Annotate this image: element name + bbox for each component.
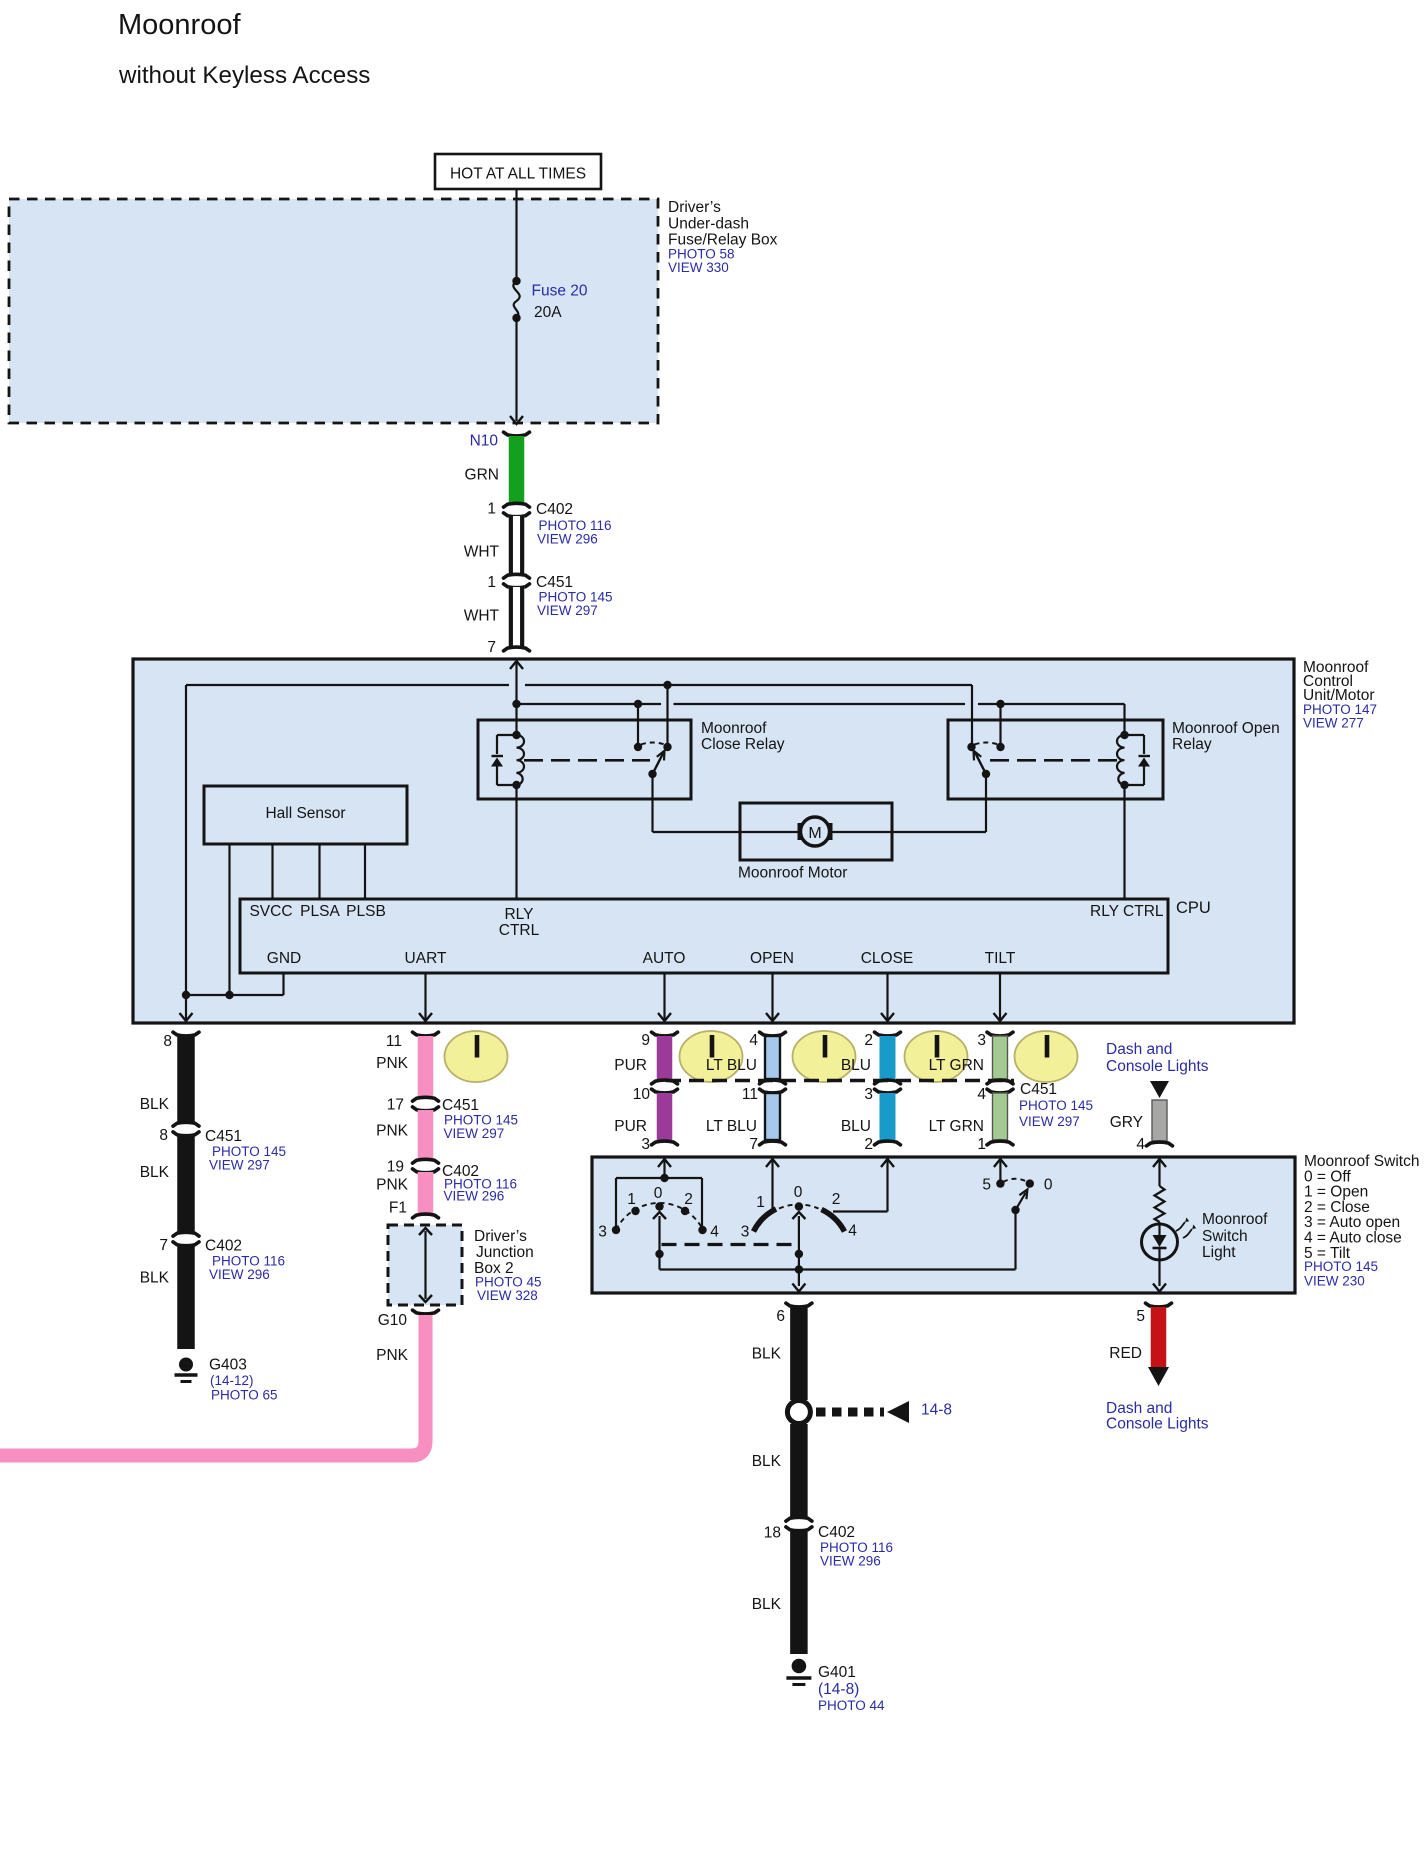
junction box pass-through arrow <box>424 1231 426 1299</box>
svg-text:VIEW 296: VIEW 296 <box>209 1267 270 1282</box>
svg-text:VIEW 277: VIEW 277 <box>1303 716 1364 731</box>
svg-text:PHOTO 65: PHOTO 65 <box>211 1388 278 1403</box>
svg-text:C451: C451 <box>442 1097 479 1114</box>
fuse box label <box>668 199 778 275</box>
Hall Sensor box <box>204 786 407 844</box>
cap GRY bottom pin 4 <box>1147 1142 1173 1146</box>
svg-text:Dash and: Dash and <box>1106 1041 1172 1058</box>
svg-text:WHT: WHT <box>464 544 500 561</box>
svg-text:VIEW 330: VIEW 330 <box>668 260 729 275</box>
svg-text:Close Relay: Close Relay <box>701 736 785 753</box>
svg-text:HOT AT ALL TIMES: HOT AT ALL TIMES <box>450 166 586 183</box>
svg-text:11: 11 <box>742 1086 758 1103</box>
CPU pin labels top <box>249 903 1163 939</box>
Moonroof Switch box <box>592 1157 1295 1293</box>
svg-text:Driver’s: Driver’s <box>474 1228 527 1245</box>
connector C451 pin 11 <box>760 1080 786 1084</box>
svg-text:VIEW 296: VIEW 296 <box>820 1554 881 1569</box>
close relay armature <box>653 752 665 775</box>
wire GRN N10 <box>509 436 525 503</box>
sw2 contact strip 2-4 <box>822 1210 845 1232</box>
sw2 position labels <box>741 1184 858 1241</box>
option circle 4 <box>905 1031 968 1082</box>
connector C402 pin 19 <box>413 1159 439 1163</box>
connector C402 pin 7 <box>173 1232 199 1236</box>
connector C451 row label <box>1019 1081 1093 1129</box>
cap LTGRN top <box>987 1032 1013 1036</box>
svg-text:VIEW 297: VIEW 297 <box>537 603 598 618</box>
svg-text:0: 0 <box>654 1185 663 1202</box>
svg-text:Console Lights: Console Lights <box>1106 1058 1209 1075</box>
svg-text:LT GRN: LT GRN <box>929 1118 984 1135</box>
svg-text:4: 4 <box>977 1086 986 1103</box>
label Dash and Console Lights (top) <box>1106 1041 1209 1075</box>
svg-text:3: 3 <box>641 1136 650 1153</box>
sw1 feed arrow <box>658 1159 671 1167</box>
connector C451 pin 8 <box>173 1122 199 1126</box>
svg-text:4: 4 <box>710 1224 719 1241</box>
svg-text:1: 1 <box>627 1191 636 1208</box>
svg-text:CTRL: CTRL <box>499 922 540 939</box>
cap BLU top <box>875 1032 901 1036</box>
svg-text:GRY: GRY <box>1110 1114 1143 1131</box>
ground G401 <box>792 1659 807 1674</box>
svg-text:C451: C451 <box>1020 1081 1057 1098</box>
svg-text:OPEN: OPEN <box>750 950 794 967</box>
lamp feed arrow <box>1153 1159 1166 1167</box>
node common-exit <box>795 1265 803 1273</box>
LED emission arrows <box>1176 1222 1185 1231</box>
svg-text:Dash and: Dash and <box>1106 1400 1172 1417</box>
wire PNK seg3 <box>418 1172 434 1213</box>
svg-text:C402: C402 <box>536 501 573 518</box>
svg-text:1: 1 <box>977 1136 986 1153</box>
node line2-open relay <box>996 700 1004 708</box>
connector C402 pnk label <box>442 1163 517 1204</box>
common return line <box>660 1268 1016 1270</box>
connector C402 pin 1 (top) <box>504 503 530 507</box>
cap PNK top <box>413 1032 439 1036</box>
sw2 CLOSE feed arrow <box>881 1159 894 1167</box>
bus line 1 (ground feed) <box>186 684 509 686</box>
svg-text:C451: C451 <box>536 574 573 591</box>
svg-text:9: 9 <box>641 1032 650 1049</box>
connector C402 bottom label <box>818 1524 893 1569</box>
wire BLK left seg3 <box>177 1245 195 1349</box>
svg-text:VIEW 297: VIEW 297 <box>209 1158 270 1173</box>
svg-text:Moonroof: Moonroof <box>701 720 767 737</box>
wire BLK bottom seg1 <box>790 1307 808 1400</box>
svg-text:VIEW 297: VIEW 297 <box>444 1126 505 1141</box>
switch mechanical link (dashed) <box>662 1243 796 1246</box>
node power-line2 <box>512 700 520 708</box>
svg-text:7: 7 <box>487 639 496 656</box>
svg-text:LT BLU: LT BLU <box>706 1057 757 1074</box>
svg-text:SVCC: SVCC <box>249 903 292 920</box>
connector C451 left label <box>205 1128 286 1173</box>
svg-text:4: 4 <box>749 1032 758 1049</box>
svg-text:2: 2 <box>864 1136 873 1153</box>
TILT exit wire <box>999 973 1001 1021</box>
svg-text:PUR: PUR <box>614 1118 647 1135</box>
svg-text:G401: G401 <box>818 1664 856 1681</box>
CPU box <box>240 899 1168 973</box>
svg-text:2: 2 <box>832 1191 841 1208</box>
sw1 contact arc (dashed) <box>616 1203 703 1230</box>
svg-text:C402: C402 <box>818 1524 855 1541</box>
sw3 contacts <box>996 1179 1004 1187</box>
cap PUR top <box>652 1032 678 1036</box>
svg-text:3: 3 <box>864 1086 873 1103</box>
svg-text:CPU: CPU <box>1176 899 1211 917</box>
bus line 2 corner to open coil <box>1123 704 1125 735</box>
node gnd junction 2 <box>225 991 233 999</box>
connector C402 left label <box>205 1238 285 1283</box>
svg-text:7: 7 <box>749 1136 758 1153</box>
ground G403 <box>179 1358 193 1372</box>
moonroof switch light label <box>1202 1211 1268 1261</box>
gnd exit arrow <box>180 1013 193 1021</box>
motor M1 (circle M) <box>801 817 830 846</box>
svg-text:11: 11 <box>386 1033 402 1050</box>
resistor R (lamp) <box>1155 1186 1165 1222</box>
svg-text:G10: G10 <box>378 1312 408 1329</box>
svg-text:PUR: PUR <box>614 1057 647 1074</box>
svg-text:Moonroof: Moonroof <box>1202 1211 1268 1228</box>
svg-text:14-8: 14-8 <box>921 1402 952 1419</box>
power wire vertical inside unit <box>515 661 517 735</box>
lamp to exit <box>1158 1260 1160 1286</box>
cap LTBLU bottom pin 7 <box>760 1141 786 1145</box>
svg-text:(14-12): (14-12) <box>210 1373 254 1388</box>
sw1 wiper to common <box>658 1254 660 1270</box>
wire BLK bottom seg2 <box>790 1424 808 1517</box>
svg-text:VIEW 230: VIEW 230 <box>1304 1274 1365 1289</box>
svg-text:1: 1 <box>756 1194 765 1211</box>
svg-text:BLK: BLK <box>140 1096 170 1113</box>
sw1 feed bracket <box>616 1177 702 1179</box>
svg-text:PHOTO 145: PHOTO 145 <box>1019 1098 1093 1113</box>
svg-text:PNK: PNK <box>376 1177 409 1194</box>
svg-text:PNK: PNK <box>376 1055 409 1072</box>
motor wires inside box <box>740 831 798 833</box>
svg-text:RED: RED <box>1109 1345 1142 1362</box>
sw3 wiper to common <box>1014 1210 1016 1270</box>
svg-text:LT GRN: LT GRN <box>929 1057 984 1074</box>
svg-text:RLY: RLY <box>504 906 533 923</box>
svg-text:LT BLU: LT BLU <box>706 1118 757 1135</box>
svg-text:0: 0 <box>794 1184 803 1201</box>
svg-text:VIEW 297: VIEW 297 <box>1019 1114 1080 1129</box>
Moonroof Open Relay box <box>948 720 1163 799</box>
svg-text:VIEW 296: VIEW 296 <box>444 1189 505 1204</box>
svg-text:18: 18 <box>764 1525 781 1542</box>
connector C451 label <box>536 574 613 618</box>
close relay diode <box>497 734 517 736</box>
svg-text:7: 7 <box>159 1237 168 1254</box>
svg-text:GRN: GRN <box>465 467 499 484</box>
control unit label <box>1303 659 1377 731</box>
wire BLU seg1 <box>880 1036 896 1079</box>
wire BLK left seg2 <box>177 1135 195 1232</box>
GND pin route <box>282 973 284 995</box>
svg-text:19: 19 <box>387 1159 404 1176</box>
cap RED top <box>1146 1303 1172 1307</box>
label box HOT AT ALL TIMES <box>435 154 601 189</box>
OPEN exit wire <box>771 973 773 1021</box>
svg-text:8: 8 <box>163 1033 172 1050</box>
sw3 wiper <box>1016 1193 1026 1211</box>
connector C451 pnk label <box>442 1097 518 1141</box>
svg-text:3: 3 <box>977 1032 986 1049</box>
open relay throw arc (dashed) <box>975 743 999 745</box>
svg-text:2: 2 <box>684 1191 693 1208</box>
close coil to CPU RLY CTRL <box>515 785 517 899</box>
svg-text:5: 5 <box>982 1177 991 1194</box>
svg-text:Driver’s: Driver’s <box>668 199 721 216</box>
connector C402 label <box>536 501 612 547</box>
sw2 contact 0 <box>795 1202 803 1210</box>
motor brush terminals <box>799 825 803 839</box>
cap LTGRN bottom pin 1 <box>987 1141 1013 1145</box>
svg-text:Light: Light <box>1202 1244 1236 1261</box>
open relay label <box>1172 720 1280 753</box>
svg-text:Moonroof: Moonroof <box>118 9 241 41</box>
open relay output wire <box>985 774 987 832</box>
Driver's Junction Box 2 (dashed) <box>388 1225 462 1305</box>
cap BLU bottom pin 2 <box>875 1141 901 1145</box>
Moonroof Close Relay box <box>478 720 691 799</box>
wire PNK seg2 <box>418 1110 434 1159</box>
connector C451 pin 1 <box>504 574 530 578</box>
svg-text:RLY CTRL: RLY CTRL <box>1090 903 1164 920</box>
svg-text:20A: 20A <box>534 304 562 321</box>
svg-text:PHOTO 44: PHOTO 44 <box>818 1698 885 1713</box>
close relay contacts <box>634 743 642 751</box>
open relay linkage (dashed) <box>990 759 1117 762</box>
wire LTGRN seg2 <box>993 1093 1008 1140</box>
svg-text:1: 1 <box>487 501 496 518</box>
svg-text:Console Lights: Console Lights <box>1106 1416 1209 1433</box>
bus line 1 corner to open relay contact <box>971 685 973 746</box>
arrow from dash lights <box>1150 1081 1169 1098</box>
cap BLK left top <box>173 1032 199 1036</box>
LED moonroof switch light <box>1158 1222 1160 1224</box>
svg-text:Fuse 20: Fuse 20 <box>532 283 588 300</box>
svg-text:BLK: BLK <box>140 1164 170 1181</box>
svg-text:Hall Sensor: Hall Sensor <box>265 805 345 822</box>
C451 dashed connector line <box>666 1079 1014 1083</box>
svg-text:M: M <box>808 825 821 842</box>
wire line2 to close NO contact <box>637 704 639 746</box>
svg-text:6: 6 <box>776 1308 785 1325</box>
svg-text:AUTO: AUTO <box>643 950 686 967</box>
svg-text:PNK: PNK <box>376 1123 409 1140</box>
wire from HOT to fuse <box>515 189 517 281</box>
hall sensor pin wires <box>228 844 230 995</box>
svg-text:CLOSE: CLOSE <box>861 950 914 967</box>
svg-text:BLK: BLK <box>752 1453 782 1470</box>
close relay output wire <box>651 774 653 832</box>
wire LTBLU seg2 <box>765 1093 780 1140</box>
svg-text:BLK: BLK <box>140 1270 170 1287</box>
wire PNK seg1 <box>418 1036 434 1097</box>
svg-text:(14-8): (14-8) <box>818 1681 859 1698</box>
open coil to CPU RLY CTRL <box>1123 785 1125 899</box>
svg-text:C451: C451 <box>205 1128 242 1145</box>
open relay diode <box>1125 734 1145 736</box>
wire PUR seg1 <box>657 1036 673 1079</box>
sw2 throw arc (dashed) <box>779 1204 819 1208</box>
AUTO exit wire <box>663 973 665 1021</box>
open relay armature <box>975 752 987 775</box>
svg-text:VIEW 328: VIEW 328 <box>477 1288 538 1303</box>
svg-text:17: 17 <box>387 1097 404 1114</box>
svg-text:PHOTO 145: PHOTO 145 <box>1304 1259 1378 1274</box>
sw1 position labels <box>598 1185 719 1241</box>
wire PUR seg2 <box>657 1093 673 1140</box>
node gnd junction 1 <box>182 991 190 999</box>
wire LTBLU seg1 <box>765 1036 780 1079</box>
junction box label <box>474 1228 542 1303</box>
connector C451 pin 17 <box>413 1097 439 1101</box>
left ground vertical x186 <box>185 685 187 1021</box>
connector C451 pin 4 <box>987 1080 1013 1084</box>
wire BLK left seg1 <box>177 1036 195 1122</box>
Moonroof Control Unit/Motor box <box>133 659 1294 1023</box>
svg-text:3: 3 <box>741 1224 750 1241</box>
splice ring to 14-8 <box>787 1401 810 1424</box>
wire GRY <box>1152 1100 1167 1141</box>
svg-text:4: 4 <box>848 1223 857 1240</box>
svg-text:10: 10 <box>633 1086 651 1103</box>
connector C451 pin 3 <box>875 1080 901 1084</box>
close relay label <box>701 720 785 753</box>
node line1-close relay <box>663 681 671 689</box>
wire WHT (C451-unit) <box>509 587 525 646</box>
svg-text:Relay: Relay <box>1172 736 1212 753</box>
svg-text:5: 5 <box>1136 1308 1145 1325</box>
option circle 3 <box>793 1031 856 1082</box>
cap LTBLU top <box>760 1032 786 1036</box>
svg-text:BLK: BLK <box>752 1596 782 1613</box>
connector C402 pin 18 <box>786 1517 812 1521</box>
close relay linkage (dashed) <box>524 759 650 762</box>
sw3 position labels <box>982 1177 1053 1194</box>
svg-text:Moonroof Motor: Moonroof Motor <box>738 865 847 882</box>
svg-text:C402: C402 <box>205 1238 242 1255</box>
svg-text:Under-dash: Under-dash <box>668 216 749 233</box>
ground G401 label <box>818 1664 885 1713</box>
svg-text:without Keyless Access: without Keyless Access <box>118 62 370 89</box>
label Dash and Console Lights (bottom) <box>1106 1400 1209 1433</box>
svg-text:N10: N10 <box>470 433 499 450</box>
open relay contacts <box>967 743 975 751</box>
wire PNK to dash (elbow to page left) <box>0 1315 426 1456</box>
sw1 contacts <box>612 1226 620 1234</box>
svg-text:3: 3 <box>598 1224 607 1241</box>
node line2-close relay NO <box>634 700 642 708</box>
Driver's Under-dash Fuse/Relay Box (dashed) <box>9 199 658 423</box>
cap PUR bottom pin 3 <box>652 1141 678 1145</box>
svg-text:BLU: BLU <box>841 1118 871 1135</box>
wire BLK bottom seg3 <box>790 1530 808 1654</box>
svg-text:BLU: BLU <box>841 1057 871 1074</box>
svg-text:F1: F1 <box>389 1200 407 1217</box>
wire RED <box>1151 1307 1167 1367</box>
switch legend <box>1304 1153 1419 1289</box>
svg-text:1: 1 <box>487 574 496 591</box>
svg-text:PNK: PNK <box>376 1347 409 1364</box>
sw2 wiper to exit <box>798 1254 800 1286</box>
wire BLU seg2 <box>880 1093 896 1140</box>
wire LTGRN seg1 <box>993 1036 1008 1079</box>
svg-text:Switch: Switch <box>1202 1228 1248 1245</box>
svg-text:UART: UART <box>405 950 447 967</box>
Moonroof Motor box <box>740 803 892 860</box>
cap PNK seg3 bottom <box>413 1214 439 1218</box>
open relay coil <box>1117 735 1125 785</box>
svg-text:4: 4 <box>1136 1136 1145 1153</box>
svg-text:PLSB: PLSB <box>346 903 386 920</box>
arrow into unit at pin 7 <box>510 661 523 669</box>
cap BLK bottom top <box>786 1303 812 1307</box>
sw2 OPEN feed arrow <box>766 1159 779 1167</box>
wire line2 to open relay contact <box>999 704 1001 746</box>
sw3 throw arc (dashed) <box>1003 1179 1028 1182</box>
option circle 1 <box>445 1031 508 1082</box>
arrow to dash lights <box>1148 1367 1169 1386</box>
close relay throw arc (dashed) <box>641 743 665 745</box>
wire line1 to close relay contact <box>666 685 668 746</box>
sw2 contact strip 1-3 <box>754 1209 777 1232</box>
CLOSE exit wire <box>886 973 888 1021</box>
svg-text:BLK: BLK <box>752 1346 782 1363</box>
wire WHT (C402-C451) <box>509 516 525 574</box>
svg-text:TILT: TILT <box>985 950 1016 967</box>
svg-text:8: 8 <box>159 1127 168 1144</box>
wire fuse to box exit + arrow <box>515 318 517 421</box>
svg-text:2: 2 <box>864 1032 873 1049</box>
sw2 wiper <box>798 1216 800 1252</box>
option circle 5 <box>1015 1031 1078 1082</box>
bus line 2 (power feed) <box>517 703 662 705</box>
svg-text:G403: G403 <box>209 1357 247 1374</box>
svg-text:0: 0 <box>1044 1177 1053 1194</box>
connector C451 pin 10/9 <box>652 1080 678 1084</box>
sw1 wiper <box>658 1216 660 1252</box>
connector cap pin7 <box>504 647 530 651</box>
option circle 2 <box>680 1031 743 1082</box>
svg-text:PLSA: PLSA <box>300 903 340 920</box>
svg-text:Junction: Junction <box>476 1244 534 1261</box>
svg-text:Moonroof Open: Moonroof Open <box>1172 720 1280 737</box>
sw3 feed arrow <box>994 1159 1007 1167</box>
ground G403 label <box>209 1357 278 1403</box>
fuse F20 (Fuse 20 20A) <box>512 277 588 322</box>
svg-text:VIEW 296: VIEW 296 <box>537 532 598 547</box>
svg-text:GND: GND <box>267 950 301 967</box>
UART exit wire <box>424 973 426 1021</box>
svg-text:WHT: WHT <box>464 608 500 625</box>
close relay coil <box>517 735 525 785</box>
CPU pin labels bottom <box>267 950 1016 967</box>
connector cap N10 <box>504 432 530 436</box>
cap PNK G10 <box>413 1310 439 1314</box>
